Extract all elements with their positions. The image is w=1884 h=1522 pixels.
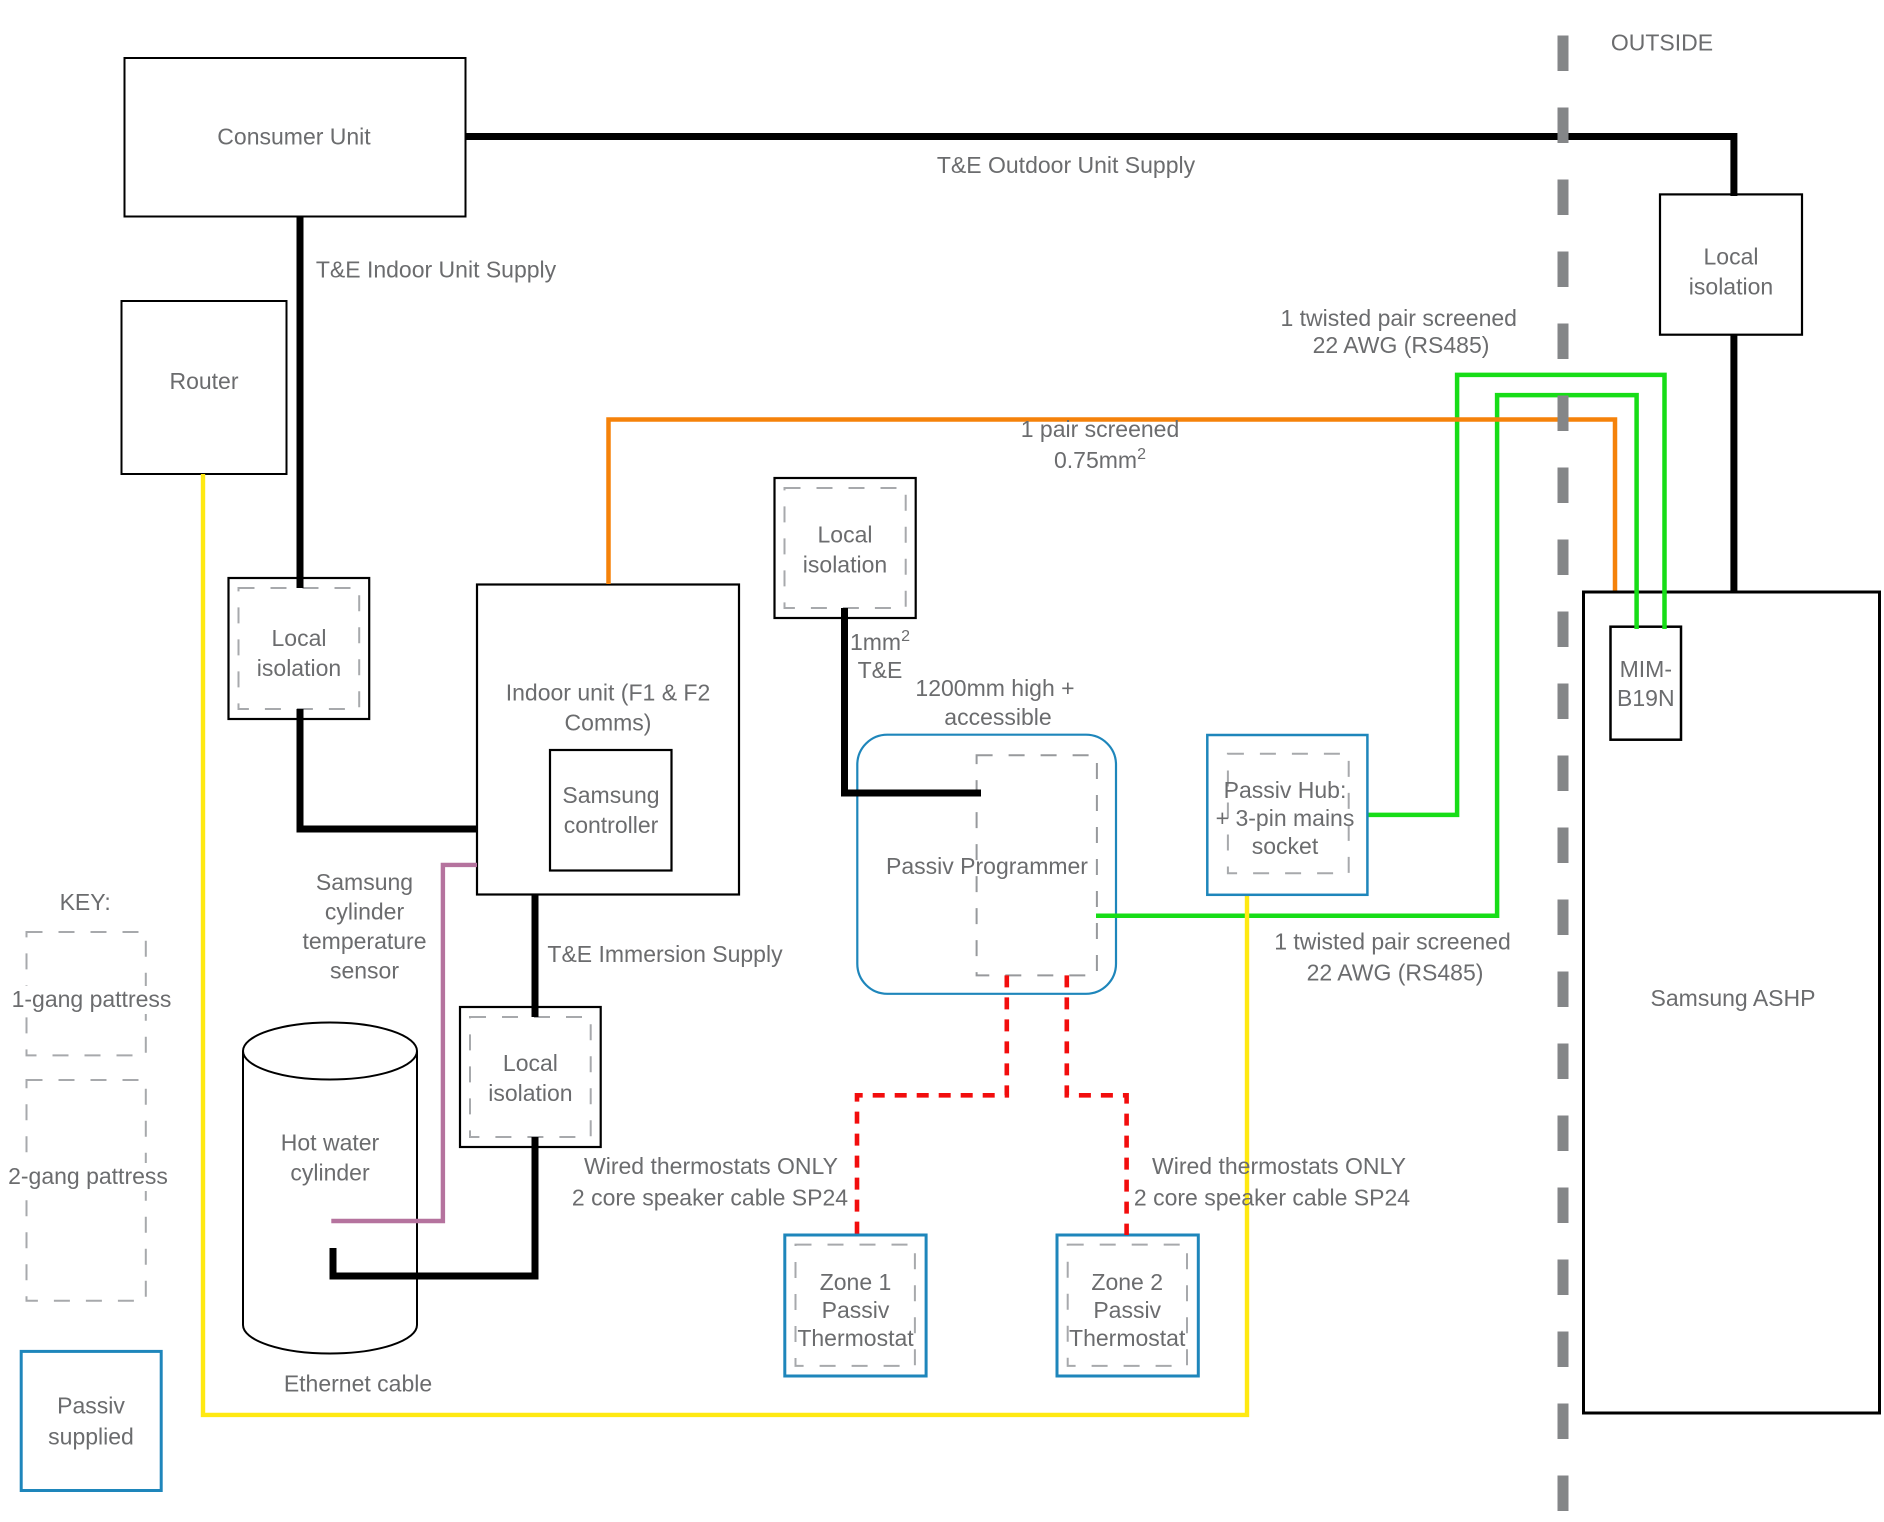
label: T&E outdoor unit supply [937,152,1196,178]
wire: RS485 hub to MIM (green) [1367,375,1664,815]
svg-text:isolation: isolation [803,552,887,578]
label: wired thermostats right [1134,1153,1410,1211]
samsung controller box [550,750,672,871]
wire: outdoor isolation to ASHP (black) [1730,335,1737,592]
label: samsung cylinder temperature sensor [302,869,426,983]
wire: 1mm2 T&E to programmer (black) [845,608,982,793]
svg-text:controller: controller [564,812,659,838]
wire: zone 1 thermostat cable (red dashed) [857,975,1007,1235]
label: 1 twisted pair screened 22 AWG (top) [1280,305,1517,358]
svg-text:accessible: accessible [944,704,1051,730]
svg-text:Local: Local [503,1050,558,1076]
label: ethernet cable [284,1371,432,1397]
MIM-B19N module box [1611,627,1682,740]
local isolation box (immersion supply) [460,1007,601,1147]
svg-text:Passiv: Passiv [822,1297,890,1323]
svg-text:isolation: isolation [257,655,341,681]
svg-text:22 AWG (RS485): 22 AWG (RS485) [1313,332,1490,358]
svg-text:Router: Router [169,368,238,394]
KEY 1-gang pattress symbol [6,932,178,1055]
consumer unit box [125,58,466,217]
svg-text:Zone 1: Zone 1 [820,1269,892,1295]
svg-text:socket: socket [1252,833,1319,859]
svg-text:T&E Immersion Supply: T&E Immersion Supply [547,941,783,967]
svg-text:B19N: B19N [1617,685,1675,711]
svg-text:supplied: supplied [48,1423,134,1449]
svg-text:Thermostat: Thermostat [797,1325,914,1351]
svg-text:T&E: T&E [858,657,903,683]
local isolation box (1mm T&E) [775,478,916,618]
svg-text:T&E Indoor Unit Supply: T&E Indoor Unit Supply [316,256,557,282]
hot water cylinder [243,1023,417,1354]
svg-text:1 twisted pair screened: 1 twisted pair screened [1280,305,1517,331]
label: 1mm2 T&E [850,628,910,683]
zone 2 passiv thermostat box [1057,1235,1198,1376]
svg-text:Zone 2: Zone 2 [1091,1269,1163,1295]
svg-text:Wired thermostats ONLY: Wired thermostats ONLY [584,1153,838,1179]
svg-text:Indoor unit (F1 & F2: Indoor unit (F1 & F2 [506,679,711,705]
svg-text:Passiv Hub:: Passiv Hub: [1224,777,1347,803]
svg-text:2-gang pattress: 2-gang pattress [8,1163,168,1189]
KEY 2-gang pattress symbol [2,1080,176,1301]
label: T&E immersion supply [547,941,783,967]
svg-text:Local: Local [272,625,327,651]
wire: cylinder temperature sensor (purple) [331,865,477,1221]
svg-text:1-gang pattress: 1-gang pattress [12,986,172,1012]
svg-text:isolation: isolation [1689,274,1773,300]
wire: T&E indoor unit supply (black) [300,217,477,830]
wire: T&E immersion supply (black) [333,895,535,1277]
svg-text:+ 3-pin mains: + 3-pin mains [1216,805,1355,831]
svg-text:Thermostat: Thermostat [1069,1325,1186,1351]
svg-text:Passiv: Passiv [1093,1297,1161,1323]
OUTSIDE label [1611,30,1713,56]
svg-text:1mm2: 1mm2 [850,628,910,655]
svg-text:isolation: isolation [488,1080,572,1106]
local isolation box (outdoor unit) [1660,194,1802,334]
svg-text:OUTSIDE: OUTSIDE [1611,30,1713,56]
passiv programmer box [857,735,1116,994]
svg-text:1 twisted pair screened: 1 twisted pair screened [1274,929,1511,955]
passiv hub box [1207,735,1367,895]
svg-text:2 core speaker cable SP24: 2 core speaker cable SP24 [572,1185,848,1211]
svg-text:cylinder: cylinder [290,1160,370,1186]
svg-text:1 pair screened: 1 pair screened [1021,416,1180,442]
svg-text:sensor: sensor [330,957,399,983]
svg-text:KEY:: KEY: [60,889,111,915]
label: wired thermostats left [572,1153,848,1211]
KEY passiv supplied box [21,1351,161,1490]
svg-text:2 core speaker cable SP24: 2 core speaker cable SP24 [1134,1185,1410,1211]
wire: zone 2 thermostat cable (red dashed) [1067,975,1127,1235]
svg-text:temperature: temperature [302,928,426,954]
wire: indoor unit comms 1 pair screened (orange) [609,420,1616,591]
svg-text:Samsung: Samsung [562,782,659,808]
outside boundary dashed line [1558,36,1569,1515]
svg-text:Hot water: Hot water [281,1130,380,1156]
svg-text:cylinder: cylinder [325,899,405,925]
svg-text:0.75mm2: 0.75mm2 [1054,446,1146,473]
svg-text:Passiv Programmer: Passiv Programmer [886,853,1088,879]
wire: RS485 programmer to MIM (green) [1096,395,1637,916]
local isolation box (indoor unit supply) [229,578,370,719]
svg-text:Samsung: Samsung [316,869,413,895]
label: 1 pair screened 0.75mm2 [1021,416,1180,473]
router box [122,301,287,474]
label: T&E indoor unit supply [316,256,557,282]
svg-text:22 AWG (RS485): 22 AWG (RS485) [1307,960,1484,986]
svg-text:Samsung ASHP: Samsung ASHP [1651,985,1816,1011]
wire: T&E outdoor unit supply (black) [465,137,1734,197]
svg-text:Wired thermostats ONLY: Wired thermostats ONLY [1152,1153,1406,1179]
svg-text:1200mm high +: 1200mm high + [915,675,1074,701]
samsung ASHP box [1584,592,1880,1413]
label: 1 twisted pair screened 22 AWG (bottom) [1274,929,1511,986]
svg-text:Ethernet cable: Ethernet cable [284,1371,432,1397]
svg-text:Consumer Unit: Consumer Unit [217,123,371,149]
svg-text:MIM-: MIM- [1620,656,1672,682]
svg-text:Local: Local [818,522,873,548]
zone 1 passiv thermostat box [785,1235,926,1376]
svg-text:Passiv: Passiv [57,1393,125,1419]
svg-text:Comms): Comms) [565,709,652,735]
wire: ethernet cable (yellow) [203,474,1247,1415]
indoor unit box [477,585,739,895]
KEY heading [60,889,111,915]
label: 1200mm high + accessible [915,675,1074,730]
svg-text:Local: Local [1704,244,1759,270]
svg-text:T&E Outdoor Unit Supply: T&E Outdoor Unit Supply [937,152,1196,178]
